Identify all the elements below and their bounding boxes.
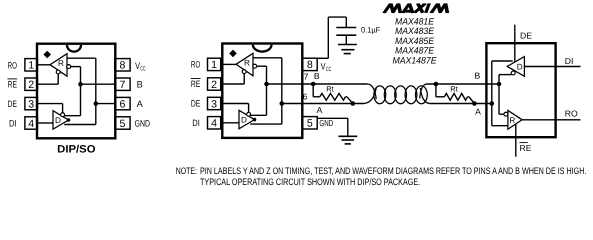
- wire A bus right section: [430, 103, 492, 105]
- U3 wire A to R lower input: [492, 125, 508, 127]
- U1 DIP/SO wire B net vertical upper: [80, 67, 82, 85]
- svg-text:DE: DE: [191, 99, 200, 109]
- svg-text:5: 5: [307, 118, 313, 130]
- U2 circuit pin 2 box: [208, 78, 221, 90]
- U3 junction A: [490, 101, 495, 106]
- U1 DIP/SO pin-1 diamond mark: [43, 51, 51, 59]
- svg-text:GND: GND: [135, 118, 151, 128]
- U1 DIP/SO pin 4 box: [25, 117, 38, 129]
- U1 DIP/SO pin 8 box: [115, 59, 130, 71]
- wire pin5 GND right: [317, 117, 348, 119]
- wire A bus left section: [302, 103, 364, 105]
- U3 wire A down: [491, 104, 493, 126]
- svg-text:8: 8: [307, 59, 313, 71]
- wire VCC horizontal: [328, 16, 346, 18]
- svg-text:B: B: [475, 70, 481, 80]
- svg-text:1: 1: [28, 60, 34, 72]
- svg-text:CC: CC: [326, 66, 332, 73]
- U2 circuit wire B net vertical upper: [266, 66, 268, 84]
- U2 circuit notch: [253, 45, 272, 52]
- U2 circuit wire A net to pin6: [282, 103, 303, 105]
- U2 circuit junction B net: [264, 82, 269, 87]
- wire Rt1 lead left: [313, 96, 320, 98]
- svg-text:DI: DI: [9, 119, 17, 129]
- ground (pin5) bar 1: [338, 135, 357, 137]
- U2 circuit receiver R triangle: [236, 53, 253, 76]
- U2 circuit pin 3 box: [208, 97, 221, 109]
- svg-text:D: D: [517, 63, 523, 72]
- transceiver U3 box: [486, 43, 555, 137]
- U2 circuit pin 4 box: [208, 117, 221, 129]
- U2 circuit wire pin3 DE right: [221, 103, 249, 105]
- U1 DIP/SO wire pin1 RO to R apex: [37, 64, 50, 66]
- U2 circuit wire A net vertical upper: [281, 58, 283, 104]
- svg-text:GND: GND: [319, 118, 333, 128]
- U2 circuit wire pin3 DE down to D enable bubble: [248, 104, 250, 117]
- U1 DIP/SO wire A net vertical lower: [95, 104, 97, 125]
- U2 circuit wire A net vertical lower: [281, 104, 283, 125]
- svg-text:B: B: [314, 71, 320, 81]
- U1 DIP/SO wire A net vertical upper: [95, 58, 97, 103]
- U3 wire B to R inverting input bubble: [499, 113, 504, 115]
- svg-text:MAX483E: MAX483E: [395, 26, 435, 36]
- svg-text:6: 6: [303, 92, 308, 102]
- wire Rt2 from B bus down: [435, 84, 437, 97]
- svg-text:2: 2: [28, 79, 34, 91]
- U2 circuit wire B net to D upper output: [250, 114, 266, 116]
- junction Rt2 to B bus: [434, 82, 439, 87]
- svg-text:RO: RO: [565, 108, 578, 118]
- U2 circuit package outline: [222, 44, 302, 138]
- wire pin5 GND down: [347, 118, 349, 136]
- U1 DIP/SO junction B net: [78, 82, 83, 87]
- U2 circuit D apex junction: [253, 118, 257, 122]
- svg-text:2: 2: [211, 79, 217, 91]
- svg-text:D: D: [241, 116, 247, 125]
- U1 DIP/SO receiver R triangle: [50, 54, 67, 76]
- svg-text:A: A: [137, 99, 144, 109]
- U1 DIP/SO wire A net to pin6: [96, 103, 115, 105]
- U1 DIP/SO pin 7 box: [115, 78, 130, 90]
- U1 DIP/SO D apex junction: [67, 118, 71, 122]
- U1 DIP/SO pin 6 box: [115, 97, 130, 109]
- wire VCC stub from pin 8 box: [317, 57, 329, 59]
- svg-text:DE: DE: [520, 31, 532, 41]
- U1 DIP/SO notch: [67, 45, 81, 52]
- svg-text:PIN LABELS Y AND Z ON TIMING,: PIN LABELS Y AND Z ON TIMING, TEST, AND …: [200, 165, 586, 176]
- svg-text:8: 8: [120, 60, 126, 72]
- U1 DIP/SO R inverting input bubble (B): [67, 65, 71, 69]
- junction Rt1 to B bus: [311, 82, 316, 87]
- U2 circuit pin 8 box: [302, 58, 317, 70]
- U2 circuit wire pin2 /RE right: [221, 83, 245, 85]
- U2 circuit pin-1 diamond mark: [229, 50, 237, 58]
- U1 DIP/SO wire R upper input (A net) horizontal: [67, 57, 96, 59]
- U3 D output bubble: [511, 71, 515, 75]
- U1 DIP/SO wire B net vertical lower: [80, 84, 82, 116]
- U2 circuit D enable bubble: [247, 112, 251, 116]
- U1 DIP/SO wire pin3 DE down to D enable bubble: [62, 104, 64, 117]
- U1 DIP/SO wire pin4 DI to D input: [37, 122, 53, 124]
- wire Rt2 to A bus diagonal: [469, 97, 474, 104]
- svg-text:Rt: Rt: [450, 85, 458, 94]
- wire B bus left section: [302, 83, 368, 85]
- U2 circuit wire R upper input (A net) horizontal: [253, 57, 282, 59]
- ground (cap) bar 2: [341, 49, 354, 51]
- U1 DIP/SO wire B net to pin7: [81, 83, 115, 85]
- U2 circuit R enable bubble: [242, 70, 246, 74]
- wire Rt2 lead left: [436, 96, 445, 98]
- U3 wire A up: [491, 61, 493, 104]
- wire /RE from U3 R down: [515, 124, 517, 157]
- U1 DIP/SO wire B net from R bubble: [71, 66, 81, 68]
- svg-text:R: R: [58, 59, 64, 68]
- svg-text:DIP/SO: DIP/SO: [57, 143, 95, 155]
- wire Rt2 lead right: [468, 96, 470, 98]
- U2 circuit R inverting input bubble (B): [253, 64, 257, 68]
- svg-text:RO: RO: [8, 60, 17, 70]
- svg-text:MAX485E: MAX485E: [395, 36, 435, 46]
- svg-text:3: 3: [211, 98, 217, 110]
- U1 DIP/SO wire pin3 DE right: [37, 103, 62, 105]
- wire capacitor to ground: [345, 35, 347, 44]
- U2 circuit junction A net: [280, 101, 285, 106]
- svg-text:7: 7: [304, 71, 309, 81]
- U3 driver D triangle: [507, 57, 524, 77]
- junction Rt1 to A bus: [351, 101, 356, 106]
- U1 DIP/SO package outline: [37, 44, 115, 139]
- svg-text:A: A: [317, 105, 323, 115]
- ground (cap) bar 1: [338, 44, 357, 46]
- svg-text:0.1µF: 0.1µF: [361, 26, 380, 35]
- svg-text:MAX1487E: MAX1487E: [393, 55, 438, 65]
- U1 DIP/SO wire pin2 /RE right: [37, 83, 58, 85]
- svg-text:RE: RE: [8, 80, 17, 90]
- svg-text:DE: DE: [8, 99, 17, 109]
- wire RO from U3 right: [522, 119, 580, 121]
- svg-text:MAX481E: MAX481E: [395, 16, 435, 26]
- wire Rt1 from B bus down: [312, 84, 314, 97]
- junction Rt2 to A bus: [472, 101, 477, 106]
- wire B bus right section: [427, 83, 500, 85]
- svg-text:6: 6: [120, 98, 126, 110]
- svg-text:A: A: [475, 107, 481, 117]
- wire DE into U3: [514, 25, 516, 62]
- svg-text:4: 4: [211, 118, 217, 130]
- svg-text:RE: RE: [520, 143, 532, 153]
- U2 circuit wire pin1 RO to R apex: [221, 63, 236, 65]
- U3 R input bubble: [504, 112, 508, 116]
- U2 circuit wire pin2 /RE up to R enable bubble: [243, 73, 245, 84]
- svg-text:Rt: Rt: [326, 85, 334, 94]
- svg-text:3: 3: [28, 98, 34, 110]
- U1 DIP/SO wire pin2 /RE up to R enable bubble: [57, 74, 59, 85]
- svg-text:5: 5: [120, 118, 126, 130]
- svg-text:RO: RO: [191, 60, 200, 70]
- U1 DIP/SO junction A net: [94, 101, 99, 106]
- U2 circuit wire B net to pin7: [267, 83, 303, 85]
- wire VCC up: [327, 17, 329, 58]
- svg-text:MAX487E: MAX487E: [395, 46, 435, 56]
- wire Rt1 lead right: [346, 96, 348, 98]
- U1 DIP/SO pin 5 box: [115, 117, 130, 129]
- U1 DIP/SO wire B net to D upper output: [64, 115, 80, 117]
- U1 DIP/SO driver D triangle: [53, 111, 69, 130]
- wire Rt1 to A bus diagonal: [347, 97, 353, 104]
- U3 wire A to D upper output: [492, 60, 513, 62]
- U1 DIP/SO R enable bubble: [56, 70, 60, 74]
- U1 DIP/SO pin 2 box: [25, 78, 38, 90]
- svg-text:NOTE:: NOTE:: [176, 165, 197, 176]
- U1 DIP/SO D enable bubble: [61, 113, 65, 117]
- svg-text:TYPICAL OPERATING CIRCUIT SHOW: TYPICAL OPERATING CIRCUIT SHOWN WITH DIP…: [200, 176, 420, 187]
- U3 wire B up: [498, 75, 500, 84]
- svg-text:RE: RE: [191, 79, 200, 89]
- U2 circuit wire pin4 DI to D input: [221, 122, 239, 124]
- capacitor C1 bottom plate: [336, 34, 356, 36]
- svg-text:1: 1: [211, 59, 217, 71]
- svg-text:D: D: [55, 116, 61, 125]
- U3 wire B to D inverting output bubble: [499, 74, 512, 76]
- twisted-pair cable: [374, 86, 386, 104]
- U3 wire B down: [498, 84, 500, 114]
- U1 DIP/SO wire A net to D lower output: [64, 124, 96, 126]
- U2 circuit driver D triangle: [239, 110, 255, 129]
- capacitor C1 top plate: [336, 27, 356, 29]
- U3 junction B: [497, 82, 502, 87]
- U2 circuit wire B net from R bubble: [257, 65, 267, 67]
- svg-text:R: R: [244, 59, 250, 68]
- U3 receiver R triangle: [508, 110, 522, 129]
- ground (pin5) bar 3: [345, 143, 351, 145]
- U1 DIP/SO pin 3 box: [25, 97, 38, 109]
- svg-text:R: R: [509, 116, 515, 125]
- svg-text:DI: DI: [565, 56, 574, 66]
- ground (cap) bar 3: [344, 53, 351, 55]
- wire DI from U3 right: [524, 66, 580, 68]
- U2 circuit pin 1 box: [208, 58, 221, 70]
- U1 DIP/SO pin 1 box: [25, 59, 38, 71]
- svg-text:CC: CC: [140, 66, 146, 73]
- svg-text:7: 7: [120, 79, 126, 91]
- ground (pin5) bar 2: [342, 139, 355, 141]
- U2 circuit wire A net to D lower output: [250, 123, 282, 125]
- wire VCC down to capacitor: [345, 17, 347, 27]
- svg-text:DI: DI: [192, 118, 200, 128]
- U2 circuit pin 5 box: [302, 117, 317, 129]
- svg-text:B: B: [137, 80, 143, 90]
- svg-text:4: 4: [28, 118, 34, 130]
- U2 circuit wire B net vertical lower: [266, 84, 268, 115]
